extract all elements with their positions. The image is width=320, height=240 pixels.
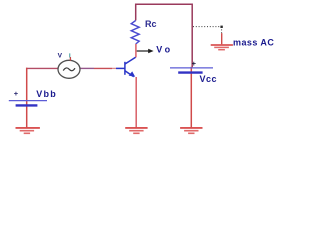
- wire: collector column (Rc bottom to transistor collector): [135, 44, 137, 57]
- ground (mass AC): [211, 45, 233, 50]
- resistor Rc: [131, 21, 139, 45]
- svg-text:Rc: Rc: [145, 19, 157, 29]
- ground (Vcc): [180, 128, 202, 133]
- label pin stub above source: [69, 57, 71, 61]
- wire: left run from battery corner to source: [26, 67, 58, 69]
- ground (emitter): [125, 128, 147, 133]
- AC source Vi: [58, 60, 80, 78]
- svg-text:V: V: [58, 53, 63, 60]
- transistor Q1 (NPN): [116, 57, 136, 77]
- wire: top horizontal run from Rc top to Vcc column: [136, 4, 193, 67]
- node: Vo takeoff arrow: [137, 50, 150, 52]
- svg-text:o: o: [165, 44, 171, 54]
- battery Vcc: [170, 67, 213, 69]
- wire: emitter column down to ground: [135, 77, 137, 127]
- svg-text:V: V: [156, 44, 162, 54]
- svg-text:mass AC: mass AC: [233, 37, 274, 47]
- wire: dotted AC-mass reference line: [193, 26, 222, 28]
- battery Vbb: [9, 100, 47, 102]
- svg-text:+: +: [192, 59, 197, 68]
- svg-text:Vcc: Vcc: [200, 74, 218, 84]
- svg-text:Vbb: Vbb: [36, 89, 57, 99]
- svg-text:+: +: [14, 89, 19, 98]
- wire: Vcc column lead to ground: [190, 67, 192, 127]
- svg-text:i: i: [69, 53, 71, 60]
- wire: base wire from source to transistor: [80, 67, 94, 69]
- wire: stub to mass AC ground: [221, 33, 223, 44]
- ground (Vbb): [16, 128, 40, 133]
- wire: left column down to Vbb: [26, 68, 28, 128]
